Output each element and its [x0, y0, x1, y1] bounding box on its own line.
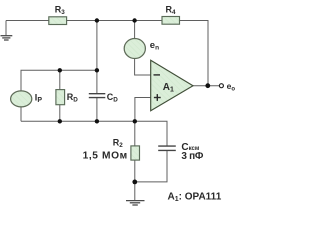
svg-text:R2: R2	[113, 137, 124, 149]
svg-text:R4: R4	[166, 4, 177, 16]
svg-text:CD: CD	[107, 92, 119, 104]
svg-text:eo: eo	[227, 81, 236, 92]
svg-text:3 пФ: 3 пФ	[181, 151, 203, 162]
svg-text:1,5 МОм: 1,5 МОм	[83, 151, 128, 162]
svg-text:RD: RD	[67, 92, 79, 104]
svg-text:A1: OPA111: A1: OPA111	[168, 191, 222, 203]
svg-text:IP: IP	[35, 92, 43, 104]
svg-text:R3: R3	[55, 5, 66, 17]
svg-text:en: en	[150, 40, 159, 52]
